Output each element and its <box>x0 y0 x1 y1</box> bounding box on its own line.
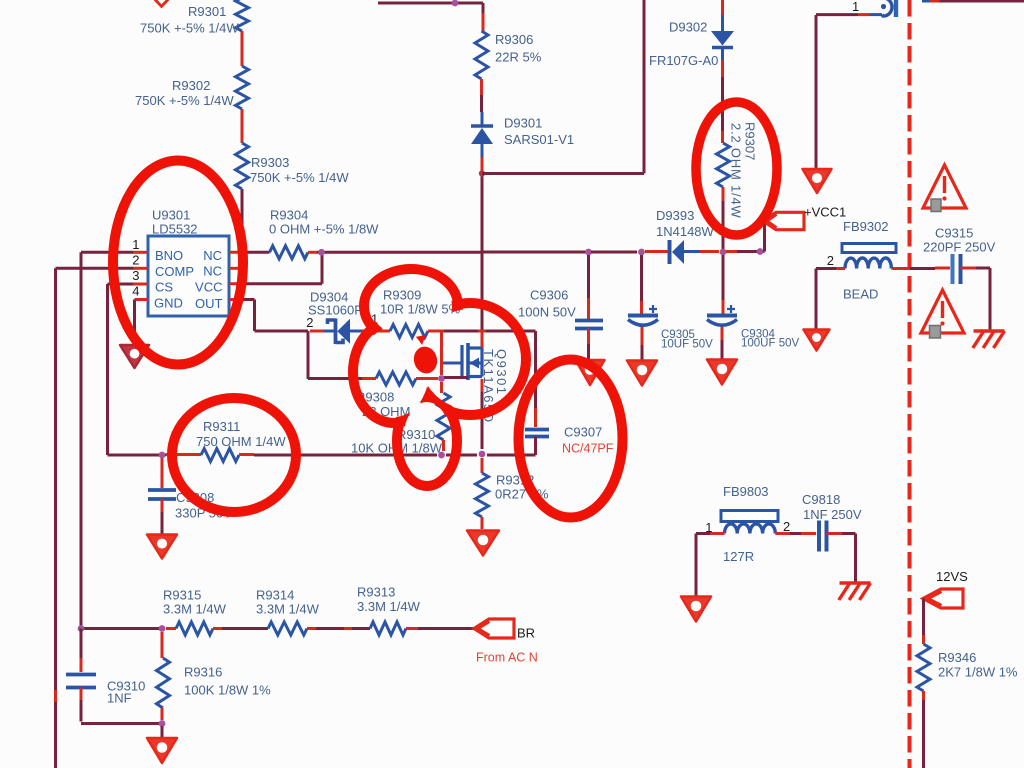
capacitor C9818 <box>817 521 821 552</box>
resistor R9315 <box>176 622 213 635</box>
svg-text:CS: CS <box>155 280 173 295</box>
svg-text:10UF 50V: 10UF 50V <box>661 339 713 351</box>
ground below FB9803 <box>681 597 711 622</box>
ground below C9304 <box>707 360 737 385</box>
svg-text:100K 1/8W 1%: 100K 1/8W 1% <box>184 683 271 698</box>
svg-text:From AC N: From AC N <box>476 651 538 665</box>
capacitor C9310 <box>80 629 83 659</box>
svg-text:D9302: D9302 <box>669 20 707 35</box>
resistor R9316 <box>161 632 164 658</box>
node C9308 branch <box>159 452 166 459</box>
svg-text:1NF: 1NF <box>107 691 132 706</box>
svg-text:BNO: BNO <box>155 248 183 263</box>
resistor R9309 <box>390 325 428 338</box>
red arrow marker top-left <box>154 0 170 9</box>
svg-text:1: 1 <box>852 0 859 14</box>
resistor R9303 <box>236 143 249 189</box>
node at loop corner <box>479 170 485 176</box>
wire R9309 row to C9307 branch <box>444 330 478 333</box>
svg-text:R9311: R9311 <box>203 419 240 434</box>
12VS flag <box>923 589 963 608</box>
svg-text:127R: 127R <box>723 549 754 564</box>
svg-text:+VCC1: +VCC1 <box>804 205 846 220</box>
svg-text:C9306: C9306 <box>530 288 568 303</box>
MOSFET Q9301 <box>462 343 482 380</box>
resistor R9314 <box>268 622 307 635</box>
OUT pin wire <box>229 298 240 301</box>
diode D9304 (schottky) <box>324 319 350 345</box>
wire R9308 row <box>307 331 310 379</box>
svg-text:VCC: VCC <box>195 280 222 295</box>
svg-text:0 OHM +-5% 1/8W: 0 OHM +-5% 1/8W <box>269 222 379 237</box>
wire gate column <box>440 331 443 375</box>
svg-text:2.2 OHM 1/4W: 2.2 OHM 1/4W <box>729 123 744 219</box>
node R9316 top <box>159 625 166 632</box>
BR flag <box>474 619 514 638</box>
svg-text:R9315: R9315 <box>163 588 201 603</box>
capacitor C9308 <box>161 458 164 488</box>
wire top feed to R9301 chain <box>241 31 244 66</box>
ground below C9306 <box>576 360 605 385</box>
svg-text:R9316: R9316 <box>184 665 222 680</box>
wire loop right of D9301 <box>482 172 644 175</box>
annotation red blob <box>411 344 440 376</box>
svg-text:R9309: R9309 <box>383 288 421 303</box>
svg-text:R9313: R9313 <box>357 585 395 600</box>
svg-text:2: 2 <box>132 253 139 268</box>
pin 1 BNO wire <box>133 251 148 254</box>
svg-text:750K +-5% 1/4W: 750K +-5% 1/4W <box>140 21 239 36</box>
svg-text:R9314: R9314 <box>256 588 294 603</box>
U9301 pin labels <box>154 248 223 311</box>
svg-text:R9306: R9306 <box>495 32 533 47</box>
wire junction to source stub <box>444 376 468 379</box>
svg-text:LD5532: LD5532 <box>152 222 198 237</box>
svg-text:750 OHM 1/4W: 750 OHM 1/4W <box>196 434 286 449</box>
diode D9301 <box>471 126 493 144</box>
wire source down <box>481 379 484 392</box>
ferrite bead FB9302 <box>842 244 896 253</box>
svg-text:2K7 1/8W 1%: 2K7 1/8W 1% <box>938 665 1018 680</box>
wire R9307 to VCC node <box>722 187 725 201</box>
IC U9301 box <box>148 236 229 316</box>
ground below C9308 <box>147 535 177 559</box>
wire up to +VCC1 flag <box>763 221 766 252</box>
svg-text:BR: BR <box>517 626 535 641</box>
svg-text:3.3M 1/4W: 3.3M 1/4W <box>163 602 227 617</box>
svg-text:NC/47PF: NC/47PF <box>562 442 614 456</box>
svg-text:R9303: R9303 <box>251 155 289 170</box>
resistor R9313 <box>370 622 406 635</box>
svg-text:1NF 250V: 1NF 250V <box>803 507 862 522</box>
bottom rail y=455 <box>162 454 166 457</box>
NC pin stub row1 right <box>229 251 247 254</box>
wire FB9803 pin1 <box>696 532 710 535</box>
node C9306 top <box>585 249 592 256</box>
svg-text:2: 2 <box>827 253 834 268</box>
svg-text:BEAD: BEAD <box>843 287 878 302</box>
resistor R9302 <box>236 66 249 109</box>
ground below C9305 <box>627 361 657 386</box>
svg-text:SARS01-V1: SARS01-V1 <box>504 132 574 147</box>
grey tag bottom <box>930 326 941 339</box>
chassis ground right of C9315 <box>973 331 1005 348</box>
svg-text:R9304: R9304 <box>270 208 308 223</box>
wire top right edge <box>922 0 929 3</box>
svg-text:220PF 250V: 220PF 250V <box>923 240 996 255</box>
+VCC1 flag <box>763 212 804 229</box>
wire 12VS to R9346 <box>922 599 925 636</box>
svg-text:C9307: C9307 <box>564 425 602 440</box>
node BNO rail <box>78 625 85 632</box>
wire R9304 to drain cross and VCC rail <box>317 251 482 254</box>
svg-text:3.3M 1/4W: 3.3M 1/4W <box>357 599 421 614</box>
pin 3 CS wire <box>133 283 148 286</box>
pin 2 COMP wire <box>133 267 148 270</box>
capacitor C9315 <box>951 254 955 284</box>
diode D9393 <box>670 240 685 264</box>
pin 4 GND wire <box>135 298 149 301</box>
capacitor C9306 <box>587 255 590 298</box>
resistor R9310 <box>440 382 443 393</box>
warning triangle top <box>923 165 966 208</box>
svg-text:R9302: R9302 <box>172 78 210 93</box>
VCC pin wire <box>229 282 243 285</box>
svg-text:FB9803: FB9803 <box>723 484 769 499</box>
svg-text:12VS: 12VS <box>936 569 968 584</box>
node source/rail <box>479 451 486 458</box>
svg-text:1: 1 <box>132 237 139 252</box>
bottom rail y=628 resistor chain <box>81 627 160 630</box>
svg-text:4: 4 <box>132 284 139 299</box>
svg-text:3.3M 1/4W: 3.3M 1/4W <box>256 602 320 617</box>
svg-text:C9818: C9818 <box>802 492 840 507</box>
svg-text:NC: NC <box>203 264 222 279</box>
svg-text:COMP: COMP <box>155 264 194 279</box>
wire R9306 to D9301 <box>480 79 483 95</box>
svg-text:D9393: D9393 <box>656 208 694 223</box>
VCC rail right of cross <box>482 251 586 254</box>
red dashed separator line <box>908 0 912 768</box>
resistor R9346 <box>917 644 930 691</box>
transformer winding arc <box>882 0 892 16</box>
resistor R9312 <box>481 458 484 473</box>
ferrite bead FB9803 <box>721 511 778 522</box>
gate lead <box>443 362 462 365</box>
svg-text:U9301: U9301 <box>152 208 190 223</box>
node R9304/VCC <box>318 249 325 256</box>
resistor R9304 <box>270 246 309 259</box>
transformer pin 1 wire top right <box>816 13 858 16</box>
node C9304/R9307 <box>720 249 727 256</box>
resistor R9307 <box>717 143 730 187</box>
ground below FB9302 <box>804 330 830 351</box>
annotation ellipse around C9307 <box>519 360 623 518</box>
wire drain vertical <box>481 252 484 331</box>
svg-text:2: 2 <box>306 315 313 330</box>
capacitor C9305 (polarized) <box>640 255 643 301</box>
svg-text:NC: NC <box>203 248 222 263</box>
grey tag top <box>931 199 941 212</box>
annotation ellipse around R9307 <box>696 102 777 235</box>
ground below U9301 <box>120 345 149 368</box>
ground below R9316 <box>147 738 177 763</box>
resistor R9308 <box>376 372 416 385</box>
svg-text:GND: GND <box>154 296 183 311</box>
resistor R9301 <box>236 0 249 31</box>
node C9305 top <box>638 249 645 256</box>
svg-text:C9315: C9315 <box>935 226 973 241</box>
wire D9301 down to cross <box>481 144 484 157</box>
svg-text:D9301: D9301 <box>504 116 542 131</box>
svg-text:2: 2 <box>783 519 790 534</box>
wire down to R9306 <box>482 3 485 13</box>
warning triangle bottom <box>921 290 964 333</box>
NC pin stub row2 right <box>229 267 238 270</box>
node R9310 bottom <box>438 452 445 459</box>
capacitor C9304 (polarized) <box>722 255 725 300</box>
resistor R9311 <box>201 449 239 462</box>
svg-text:3: 3 <box>132 268 139 283</box>
chassis ground below C9818 <box>839 583 871 600</box>
svg-text:750K +-5% 1/4W: 750K +-5% 1/4W <box>250 170 349 185</box>
annotation ellipse around U9301 <box>113 161 243 365</box>
diode D9302 <box>721 0 724 15</box>
svg-text:R9307: R9307 <box>743 122 758 160</box>
transformer core line <box>894 0 898 17</box>
svg-text:FR107G-A0: FR107G-A0 <box>649 53 718 68</box>
ground below R9312 <box>467 531 499 556</box>
svg-text:100N 50V: 100N 50V <box>518 305 576 320</box>
svg-text:1N4148W: 1N4148W <box>656 224 715 239</box>
svg-text:750K +-5% 1/4W: 750K +-5% 1/4W <box>135 93 234 108</box>
wire top middle horizontal <box>378 2 483 5</box>
node on top wire <box>452 0 459 6</box>
node +VCC1 branch <box>757 248 764 255</box>
resistor R9306 <box>475 31 488 79</box>
node gate/R9308 <box>438 375 445 382</box>
svg-text:100UF 50V: 100UF 50V <box>741 338 800 350</box>
svg-text:FB9302: FB9302 <box>843 219 889 234</box>
capacitor C9307 <box>534 331 537 408</box>
U9301 pin numbers <box>132 237 139 299</box>
svg-text:22R 5%: 22R 5% <box>495 50 542 65</box>
wire FB9302 pin2 <box>816 267 836 270</box>
ground above +VCC1 <box>815 15 818 170</box>
svg-text:R9346: R9346 <box>938 650 976 665</box>
wire D9302 to R9307 <box>721 48 724 61</box>
svg-text:OUT: OUT <box>195 296 223 311</box>
wire FB9302 to C9315 <box>892 267 911 270</box>
wire FB9803 pin2 to C9818 <box>775 532 790 535</box>
annotation ellipse around R9311 <box>172 398 296 512</box>
svg-text:R9301: R9301 <box>188 4 226 19</box>
node C9310/R9316 bottom <box>159 720 166 727</box>
